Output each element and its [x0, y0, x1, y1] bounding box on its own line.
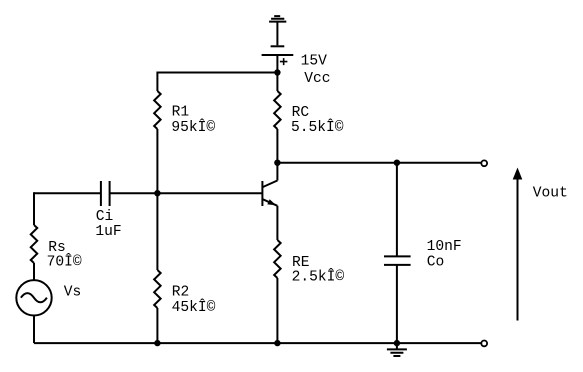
wire (RC top from battery junction) [276, 73, 278, 92]
wire (Ci right plate to base node) [110, 192, 158, 194]
wire (input corner down to Rs) [33, 192, 35, 225]
svg-text:70Î©: 70Î© [47, 253, 82, 271]
svg-text:15V: 15V [301, 54, 328, 70]
wire (input left segment to Ci) [34, 192, 101, 194]
svg-text:Vs: Vs [64, 285, 82, 301]
node (base junction at Ci/R1/R2) [154, 190, 160, 196]
wire (R2 bottom to rail) [156, 308, 158, 343]
resistor R2 45k [154, 270, 161, 308]
node (Co / bottom rail junction) [394, 340, 400, 346]
node (emitter / bottom rail junction) [274, 340, 280, 346]
wire (base wire from base node to transistor) [157, 192, 262, 194]
wire (top rail corner down to R1) [156, 72, 158, 92]
resistor Rs 70 ohm [31, 225, 38, 263]
capacitor Ci 1uF [101, 181, 110, 206]
resistor R1 95k [154, 91, 161, 129]
resistor RE 2.5k [274, 240, 281, 278]
source Vs (AC sine source) [16, 280, 51, 315]
svg-text:Co: Co [427, 255, 445, 271]
svg-text:10nF: 10nF [427, 239, 462, 255]
capacitor Co 10nF [384, 256, 411, 265]
wire (collector lead down to transistor) [276, 163, 278, 181]
wire (RE bottom to rail) [276, 278, 278, 343]
transistor Q1 (NPN) [262, 181, 277, 207]
wire (battery positive to top-rail junction) [276, 56, 278, 73]
svg-text:Ci: Ci [96, 209, 114, 225]
wire (Co bottom lead) [396, 265, 398, 343]
ground (top, at battery) [269, 16, 286, 22]
svg-text:Vcc: Vcc [304, 71, 330, 87]
svg-text:RC: RC [292, 105, 310, 121]
arrow Vout [513, 168, 523, 321]
node (collector junction) [274, 160, 280, 166]
svg-text:2.5kÎ©: 2.5kÎ© [292, 268, 345, 286]
wire (RC bottom to collector node) [276, 129, 278, 163]
wire (Rs bottom to Vs top) [33, 263, 35, 280]
node (Co top junction) [394, 160, 400, 166]
wire (emitter lead down to RE) [276, 206, 278, 240]
wire (R2 from base node down) [156, 193, 158, 270]
wire (Co top lead) [396, 163, 398, 257]
wire (Vs bottom to ground rail) [33, 316, 35, 344]
svg-text:R1: R1 [172, 105, 190, 121]
node (battery / top rail junction) [274, 69, 280, 75]
terminal (output bottom, open circle) [481, 341, 487, 347]
svg-text:1uF: 1uF [95, 224, 121, 240]
svg-text:5.5kÎ©: 5.5kÎ© [291, 118, 344, 136]
label + (battery positive) [280, 58, 288, 65]
wire (R1 bottom to base node) [156, 129, 158, 193]
svg-text:RE: RE [292, 255, 310, 271]
node (R2 / bottom rail junction) [154, 340, 160, 346]
resistor RC 5.5k [274, 91, 281, 129]
ground (bottom) [387, 343, 407, 356]
wire (ground to battery negative plate) [276, 22, 278, 45]
battery V1 15V Vcc [262, 46, 294, 55]
wire (top rail from R1 top corner to battery junction) [157, 72, 277, 74]
wire (collector rail to output terminal) [277, 162, 481, 164]
terminal (output top, open circle) [481, 160, 487, 166]
svg-text:Vout: Vout [533, 185, 568, 201]
wire (bottom rail) [34, 342, 481, 344]
svg-text:95kÎ©: 95kÎ© [171, 118, 215, 136]
svg-text:R2: R2 [172, 284, 190, 300]
svg-text:45kÎ©: 45kÎ© [172, 298, 216, 316]
